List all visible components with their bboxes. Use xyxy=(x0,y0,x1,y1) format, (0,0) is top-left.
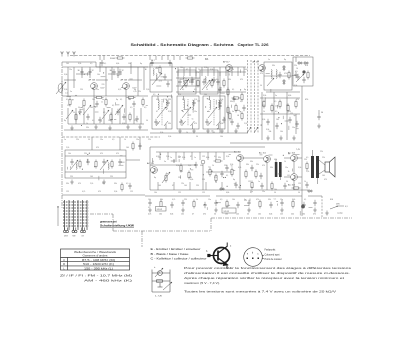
wire xyxy=(159,152,161,160)
wire xyxy=(130,62,132,74)
transistor T8 AC153 xyxy=(291,155,298,162)
resistor Ro2 xyxy=(95,160,97,169)
svg-text:maximum (5 V - 7,4 V).: maximum (5 V - 7,4 V). xyxy=(184,281,220,285)
ground xyxy=(70,126,74,131)
wire xyxy=(101,76,106,78)
wire xyxy=(266,91,300,93)
wire xyxy=(107,107,111,109)
wire xyxy=(69,166,71,168)
svg-text:gemessen bei: gemessen bei xyxy=(100,221,117,224)
resistor R16 xyxy=(232,97,241,99)
resistor R2 xyxy=(75,113,77,122)
svg-text:4,7k: 4,7k xyxy=(182,99,185,101)
transistor T7 AC151 xyxy=(264,156,271,163)
diode D1 xyxy=(283,65,286,71)
svg-text:22k: 22k xyxy=(181,183,184,185)
svg-text:3,3k: 3,3k xyxy=(64,89,67,91)
capacitor C18 xyxy=(294,72,297,78)
svg-text:C - Kollektor / collector /: C - Kollektor / collector / collecteur xyxy=(151,258,207,261)
svg-text:Wellenbereiche / Wavebands: Wellenbereiche / Wavebands xyxy=(74,251,117,254)
capacitor C27 xyxy=(225,165,228,171)
junction xyxy=(207,98,208,99)
wire xyxy=(234,182,237,184)
capacitor C28 xyxy=(250,165,253,171)
wire xyxy=(292,169,294,172)
resistor Rb10 xyxy=(259,200,261,209)
junction xyxy=(175,68,176,69)
svg-text:15n: 15n xyxy=(69,69,72,71)
ground xyxy=(279,136,283,141)
junction xyxy=(89,153,90,154)
capacitor C23 xyxy=(317,114,320,120)
wire xyxy=(111,67,113,80)
svg-text:125: 125 xyxy=(248,181,251,183)
svg-text:8p: 8p xyxy=(244,89,246,91)
svg-text:220: 220 xyxy=(202,179,205,181)
svg-text:100: 100 xyxy=(278,174,281,176)
wire xyxy=(213,67,215,76)
wire xyxy=(139,137,141,150)
wire xyxy=(221,182,223,190)
junction xyxy=(288,153,289,154)
capacitor C8 xyxy=(122,114,125,120)
wire xyxy=(90,213,113,215)
wire xyxy=(173,56,175,61)
wire xyxy=(247,60,249,133)
wire xyxy=(175,152,177,160)
wire xyxy=(75,108,77,124)
svg-text:d'alimentation il est conseill: d'alimentation il est conseillé d'utilis… xyxy=(184,271,351,275)
svg-text:1k: 1k xyxy=(304,181,306,183)
svg-text:1k: 1k xyxy=(206,89,208,91)
AFC block xyxy=(293,57,313,86)
svg-text:33k: 33k xyxy=(228,79,231,81)
svg-text:125: 125 xyxy=(66,191,69,193)
wire xyxy=(219,72,221,133)
capacitor Cc3 xyxy=(222,117,225,123)
capacitor C21b xyxy=(295,121,298,127)
svg-text:8p: 8p xyxy=(64,120,66,122)
transistor T6 AC151 xyxy=(237,155,244,162)
svg-text:DIN: DIN xyxy=(336,204,340,206)
wire xyxy=(177,67,179,76)
svg-text:5...7,4V: 5...7,4V xyxy=(155,296,163,298)
resistor Rb7 xyxy=(226,200,228,209)
wire xyxy=(257,60,259,133)
wire xyxy=(167,56,169,61)
wire xyxy=(103,108,105,124)
svg-text:510 - 1600 kHz (K): 510 - 1600 kHz (K) xyxy=(83,264,114,266)
antenna xyxy=(60,52,63,57)
svg-text:Lautspr.: Lautspr. xyxy=(337,212,344,215)
svg-text:33k: 33k xyxy=(155,68,158,70)
svg-text:Schaltbild - Schematic Diagram: Schaltbild - Schematic Diagram - Schéma xyxy=(131,42,235,47)
svg-text:1n: 1n xyxy=(194,157,196,159)
resistor R10 xyxy=(185,79,187,88)
capacitor CB xyxy=(212,77,215,83)
svg-text:220: 220 xyxy=(80,89,83,91)
svg-text:5n: 5n xyxy=(164,161,166,163)
svg-text:33k: 33k xyxy=(269,131,272,133)
svg-text:15n: 15n xyxy=(194,111,197,113)
junction xyxy=(203,174,204,175)
svg-text:50: 50 xyxy=(321,112,323,114)
svg-text:15n: 15n xyxy=(136,139,139,141)
junction xyxy=(160,154,161,155)
wire xyxy=(301,147,303,190)
wire xyxy=(211,217,352,219)
svg-text:4,7k: 4,7k xyxy=(172,199,175,201)
svg-text:2,2k: 2,2k xyxy=(188,165,191,167)
svg-text:15n: 15n xyxy=(251,187,254,189)
junction xyxy=(281,123,282,124)
resistor R25 xyxy=(209,168,211,177)
capacitor C15 xyxy=(216,79,219,85)
wire xyxy=(96,66,246,68)
junction xyxy=(75,95,76,96)
svg-text:33k: 33k xyxy=(66,183,69,185)
wire xyxy=(239,161,241,190)
ground xyxy=(108,126,112,131)
svg-text:3,3k: 3,3k xyxy=(226,156,229,158)
wire xyxy=(124,108,126,113)
wire xyxy=(62,136,160,138)
resistor R21b xyxy=(295,100,297,109)
capacitor C16 xyxy=(230,119,233,125)
svg-text:22k: 22k xyxy=(134,120,137,122)
svg-text:0,5: 0,5 xyxy=(306,157,308,159)
antenna xyxy=(72,52,75,57)
svg-text:470: 470 xyxy=(96,147,99,149)
svg-text:33k: 33k xyxy=(268,199,271,201)
svg-text:0,1: 0,1 xyxy=(226,175,228,177)
svg-text:1n: 1n xyxy=(64,139,66,141)
resistor R14 xyxy=(235,104,237,113)
wire xyxy=(223,152,225,160)
wire xyxy=(161,56,163,61)
resistor Rc1 xyxy=(227,88,229,97)
junction xyxy=(266,157,267,158)
wire xyxy=(76,73,90,75)
wire xyxy=(62,61,96,63)
wire xyxy=(261,92,263,140)
wire xyxy=(215,100,217,105)
transistor T4 AF117 xyxy=(259,65,266,72)
svg-text:12: 12 xyxy=(92,70,94,72)
capacitor Co1 xyxy=(70,159,73,165)
svg-text:15n: 15n xyxy=(285,167,288,169)
wire xyxy=(163,99,165,103)
wire xyxy=(83,108,85,124)
svg-text:10k: 10k xyxy=(189,177,192,179)
capacitor Cb15 xyxy=(313,200,316,206)
svg-text:125: 125 xyxy=(130,191,133,193)
wire xyxy=(299,211,301,215)
wire xyxy=(125,89,127,108)
junction xyxy=(283,155,284,156)
svg-text:50: 50 xyxy=(286,181,288,183)
resistor R23 xyxy=(180,164,182,173)
adjust arrow xyxy=(254,127,258,133)
wire xyxy=(93,89,95,108)
wire xyxy=(286,92,288,140)
wire xyxy=(244,199,247,201)
svg-text:3,3k: 3,3k xyxy=(219,100,222,102)
svg-text:4,7k: 4,7k xyxy=(159,81,162,83)
svg-text:33k: 33k xyxy=(246,164,249,166)
svg-text:10k: 10k xyxy=(220,136,223,138)
adjust arrow xyxy=(182,79,189,88)
svg-text:1k: 1k xyxy=(152,161,154,163)
capacitor Ci4 xyxy=(154,119,157,125)
junction xyxy=(227,186,228,187)
svg-text:0,5: 0,5 xyxy=(90,63,92,65)
capacitor Cb12 xyxy=(280,200,283,206)
label box 2 xyxy=(222,208,236,213)
wire xyxy=(61,80,63,96)
svg-text:50: 50 xyxy=(146,120,148,122)
svg-text:10,7: 10,7 xyxy=(151,60,155,62)
wire xyxy=(183,67,185,76)
svg-text:100: 100 xyxy=(302,214,305,216)
svg-text:2,2k: 2,2k xyxy=(90,183,93,185)
capacitor C17 xyxy=(236,123,239,129)
wire xyxy=(65,155,126,157)
svg-text:4,7k: 4,7k xyxy=(196,72,199,74)
wire xyxy=(125,108,127,124)
junction xyxy=(240,89,241,90)
junction xyxy=(145,69,146,70)
svg-text:1k: 1k xyxy=(196,199,198,201)
wire xyxy=(61,62,63,209)
wire xyxy=(235,109,240,111)
wire xyxy=(149,56,151,61)
svg-text:470: 470 xyxy=(116,153,119,155)
inductor Lo1 xyxy=(76,163,77,170)
junction xyxy=(94,166,95,167)
ground xyxy=(138,125,142,130)
svg-text:220: 220 xyxy=(184,199,187,201)
resistor R26 xyxy=(214,160,223,162)
svg-text:33k: 33k xyxy=(272,65,275,67)
svg-text:30: 30 xyxy=(110,70,112,72)
capacitor Ct2 xyxy=(150,60,153,66)
svg-text:125: 125 xyxy=(202,156,205,158)
wire xyxy=(112,214,114,231)
svg-text:2,2k: 2,2k xyxy=(244,123,247,125)
svg-text:4,7k: 4,7k xyxy=(148,214,151,216)
wire xyxy=(68,123,144,125)
svg-text:0,1: 0,1 xyxy=(274,199,276,201)
junction xyxy=(187,105,188,106)
inductor L2 xyxy=(156,74,157,81)
svg-text:0,5: 0,5 xyxy=(275,111,277,113)
svg-text:220: 220 xyxy=(110,176,113,178)
svg-text:0,5: 0,5 xyxy=(103,112,105,114)
wire xyxy=(183,152,185,160)
capacitor Cc2 xyxy=(218,103,221,109)
svg-text:0,5: 0,5 xyxy=(66,99,68,101)
resistor Rm1 xyxy=(132,142,134,151)
svg-text:6,8k: 6,8k xyxy=(122,123,125,125)
wire xyxy=(220,92,225,94)
wire xyxy=(133,108,135,124)
wire xyxy=(114,119,116,121)
wire xyxy=(319,160,325,165)
svg-text:100: 100 xyxy=(322,175,325,177)
svg-text:3,3k: 3,3k xyxy=(210,69,213,71)
svg-text:8p: 8p xyxy=(166,173,168,175)
wire xyxy=(277,105,279,109)
resistor Rt2 xyxy=(186,57,195,59)
svg-text:470: 470 xyxy=(214,177,217,179)
svg-text:470: 470 xyxy=(324,179,327,181)
svg-text:47: 47 xyxy=(156,111,158,113)
svg-text:245 W: 245 W xyxy=(157,209,163,211)
svg-text:125: 125 xyxy=(178,192,181,194)
capacitor Co4 xyxy=(118,159,121,165)
wire xyxy=(82,106,84,109)
svg-text:50: 50 xyxy=(208,99,210,101)
ground xyxy=(325,211,329,216)
wire xyxy=(319,170,325,174)
svg-text:1k: 1k xyxy=(288,171,290,173)
adjust arrow xyxy=(66,110,73,119)
svg-text:0,5: 0,5 xyxy=(204,79,206,81)
svg-text:8p: 8p xyxy=(140,63,142,65)
svg-text:0,1: 0,1 xyxy=(304,199,306,201)
svg-text:10k: 10k xyxy=(232,199,235,201)
wire xyxy=(91,144,93,150)
svg-text:AM - 460 kHz (K): AM - 460 kHz (K) xyxy=(84,280,133,283)
svg-text:22k: 22k xyxy=(102,183,105,185)
wire xyxy=(207,67,209,76)
svg-text:100: 100 xyxy=(180,79,183,81)
svg-text:AC 151: AC 151 xyxy=(259,152,267,155)
wire xyxy=(295,154,299,156)
wire xyxy=(141,231,143,247)
svg-text:8p: 8p xyxy=(182,111,184,113)
resistor R1 xyxy=(69,98,71,107)
svg-text:8p: 8p xyxy=(294,115,296,117)
wire xyxy=(230,105,232,108)
pin dot xyxy=(252,258,254,260)
wire xyxy=(121,161,125,163)
svg-text:AF 117: AF 117 xyxy=(223,61,230,64)
svg-text:220: 220 xyxy=(196,185,199,187)
svg-text:Après chaque réparation vérifi: Après chaque réparation vérifier le réce… xyxy=(184,276,345,280)
svg-text:1k: 1k xyxy=(124,139,126,141)
junction xyxy=(238,115,239,116)
ground xyxy=(206,129,210,134)
svg-text:30: 30 xyxy=(78,70,80,72)
ground xyxy=(214,208,218,213)
svg-text:15n: 15n xyxy=(100,139,103,141)
svg-text:5n: 5n xyxy=(275,95,277,97)
wire xyxy=(260,97,300,99)
capacitor Cm1 xyxy=(138,143,141,149)
wire xyxy=(119,108,121,124)
capacitor C3 xyxy=(112,69,115,75)
svg-text:15n: 15n xyxy=(208,199,211,201)
junction xyxy=(79,113,80,114)
junction xyxy=(261,125,262,126)
svg-text:220: 220 xyxy=(128,99,131,101)
capacitor C17b xyxy=(242,105,245,111)
adjust arrow xyxy=(102,110,109,119)
wire xyxy=(93,108,95,124)
svg-text:10k: 10k xyxy=(92,99,95,101)
capacitor C29 xyxy=(305,182,308,188)
svg-text:10k: 10k xyxy=(238,187,241,189)
svg-text:0,1: 0,1 xyxy=(65,92,67,94)
svg-text:1k: 1k xyxy=(263,111,265,113)
ground xyxy=(280,208,284,213)
svg-text:0,5: 0,5 xyxy=(130,107,132,109)
wire xyxy=(105,67,107,96)
capacitor Ca1 xyxy=(234,182,237,188)
svg-text:3,3k: 3,3k xyxy=(298,167,301,169)
svg-text:125: 125 xyxy=(202,192,205,194)
resistor R26b xyxy=(215,174,217,183)
wire xyxy=(152,158,154,163)
wire xyxy=(297,157,302,159)
svg-text:470: 470 xyxy=(260,73,263,75)
resistor Rm3 xyxy=(121,183,123,192)
svg-text:22k: 22k xyxy=(322,157,325,159)
wire xyxy=(254,60,256,133)
svg-text:6,8k: 6,8k xyxy=(190,179,193,181)
svg-text:125: 125 xyxy=(236,214,239,216)
resistor Rs1 xyxy=(159,66,161,75)
svg-text:0,5: 0,5 xyxy=(214,156,216,158)
inductor Ls2 xyxy=(153,69,154,76)
capacitor C11 xyxy=(163,74,166,80)
junction xyxy=(278,112,279,113)
capacitor C22 xyxy=(296,74,299,80)
junction xyxy=(103,72,104,73)
svg-text:22k: 22k xyxy=(76,139,79,141)
transistor T1 AF106 xyxy=(91,83,98,90)
wire xyxy=(301,190,303,216)
wire xyxy=(150,164,196,166)
svg-text:300Ω: 300Ω xyxy=(110,58,115,60)
svg-text:220: 220 xyxy=(168,99,171,101)
junction xyxy=(223,177,224,178)
adjust arrow xyxy=(152,73,162,85)
wire xyxy=(180,170,183,172)
wire xyxy=(91,137,93,144)
resistor Ra2 xyxy=(271,182,273,191)
wire xyxy=(243,157,264,159)
IF transformer IF2 xyxy=(177,96,199,129)
svg-text:470: 470 xyxy=(305,65,308,67)
wire xyxy=(103,56,105,61)
svg-text:AF 117: AF 117 xyxy=(253,61,260,64)
svg-text:2,2k: 2,2k xyxy=(166,156,169,158)
wire xyxy=(120,155,123,157)
svg-text:470: 470 xyxy=(98,191,101,193)
wire xyxy=(229,153,231,155)
resistor R17 xyxy=(288,71,290,80)
IF can A xyxy=(178,70,196,94)
resistor R3 xyxy=(83,99,85,108)
adjust arrow xyxy=(208,107,217,118)
resistor R24 xyxy=(188,171,190,180)
wire xyxy=(178,159,180,162)
wire xyxy=(216,202,221,204)
diode D2 xyxy=(283,79,286,85)
